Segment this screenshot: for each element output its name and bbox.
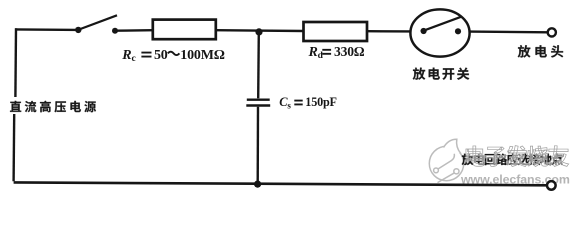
svg-text:100MΩ: 100MΩ: [180, 48, 224, 63]
svg-text:50: 50: [154, 48, 168, 63]
svg-text:150pF: 150pF: [305, 95, 337, 109]
svg-text:330Ω: 330Ω: [334, 44, 365, 59]
